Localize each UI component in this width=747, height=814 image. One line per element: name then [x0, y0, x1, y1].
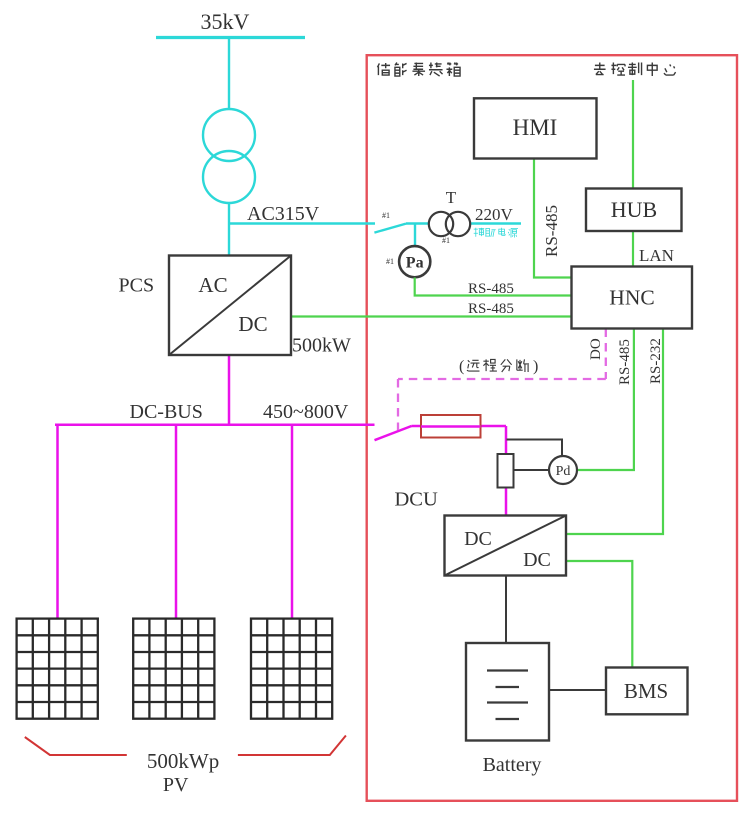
svg-text:RS-485: RS-485 [468, 281, 514, 297]
svg-text:RS-485: RS-485 [617, 339, 633, 385]
svg-text:DC: DC [523, 549, 551, 571]
svg-text:PCS: PCS [119, 275, 155, 297]
svg-text:T: T [446, 188, 457, 207]
svg-text:HUB: HUB [611, 197, 657, 222]
svg-text:35kV: 35kV [201, 9, 250, 34]
svg-text:): ) [533, 358, 538, 375]
svg-text:DC: DC [238, 312, 267, 336]
svg-text:BMS: BMS [624, 679, 668, 703]
svg-text:RS-485: RS-485 [468, 301, 514, 317]
svg-text:450~800V: 450~800V [263, 401, 349, 423]
svg-text:500kWp: 500kWp [147, 749, 219, 773]
svg-text:AC: AC [198, 273, 227, 297]
svg-text:DC: DC [464, 528, 492, 550]
svg-text:DCU: DCU [395, 489, 438, 511]
svg-text:DC-BUS: DC-BUS [130, 401, 203, 423]
svg-text:HMI: HMI [513, 115, 558, 140]
svg-text:220V: 220V [475, 205, 514, 224]
svg-text:RS-232: RS-232 [648, 338, 664, 384]
svg-text:Pd: Pd [556, 464, 571, 479]
svg-text:RS-485: RS-485 [542, 205, 561, 257]
svg-text:#1: #1 [382, 211, 390, 220]
svg-text:HNC: HNC [609, 286, 654, 310]
svg-text:DO: DO [588, 338, 604, 360]
svg-text:#1: #1 [386, 257, 394, 266]
svg-text:AC315V: AC315V [247, 203, 320, 225]
svg-text:(: ( [459, 358, 464, 375]
svg-text:Battery: Battery [483, 754, 542, 776]
svg-text:500kW: 500kW [292, 335, 351, 357]
svg-text:LAN: LAN [639, 246, 674, 265]
svg-text:Pa: Pa [406, 255, 424, 272]
svg-text:#1: #1 [442, 236, 450, 245]
svg-text:PV: PV [163, 774, 189, 796]
